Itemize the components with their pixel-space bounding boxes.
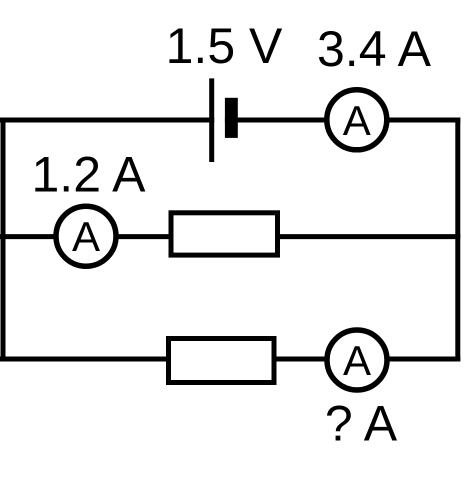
- wire: right vertical: [455, 118, 460, 362]
- ammeter A3 (bottom, ? A): [327, 330, 387, 390]
- svg-text:1.5 V: 1.5 V: [166, 18, 283, 74]
- wire: bottom horizontal: [0, 357, 460, 362]
- wire: middle horizontal: [0, 234, 460, 239]
- battery positive plate: [209, 78, 214, 162]
- svg-text:1.2 A: 1.2 A: [32, 147, 147, 203]
- wire: left vertical: [1, 118, 6, 362]
- battery gap clear: [214, 112, 225, 128]
- svg-text:3.4 A: 3.4 A: [317, 21, 432, 77]
- battery negative plate: [225, 98, 238, 138]
- wire: top horizontal: [0, 118, 460, 123]
- svg-text:? A: ? A: [325, 396, 398, 452]
- svg-text:A: A: [72, 213, 100, 260]
- resistor R1 (middle branch): [171, 213, 278, 255]
- ammeter A1 (top, 3.4 A): [327, 90, 387, 150]
- ammeter A2 (middle, 1.2 A): [56, 206, 116, 266]
- resistor R2 (bottom branch): [169, 339, 275, 383]
- svg-text:A: A: [343, 97, 371, 144]
- svg-text:A: A: [343, 337, 371, 384]
